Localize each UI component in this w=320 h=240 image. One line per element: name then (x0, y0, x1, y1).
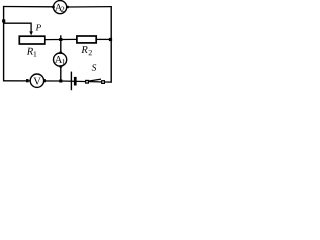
svg-text:P: P (35, 22, 42, 32)
svg-text:1: 1 (62, 57, 66, 66)
svg-text:S: S (92, 64, 97, 74)
svg-text:1: 1 (33, 50, 37, 59)
svg-text:2: 2 (88, 48, 92, 57)
svg-text:R: R (80, 45, 88, 56)
svg-text:2: 2 (61, 5, 65, 14)
svg-text:V: V (33, 77, 41, 88)
